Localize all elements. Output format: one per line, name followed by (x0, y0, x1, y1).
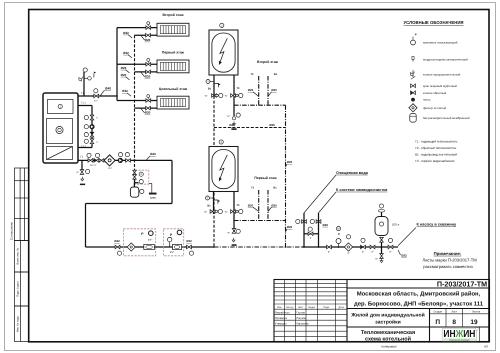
svg-text:Лист: Лист (451, 311, 457, 314)
svg-text:Ø20: Ø20 (145, 75, 151, 79)
svg-text:Второй этаж: Второй этаж (162, 13, 184, 17)
svg-text:Ø20: Ø20 (271, 88, 277, 92)
svg-text:Разработал: Разработал (275, 311, 290, 314)
svg-text:1": 1" (96, 141, 98, 144)
svg-text:Очищенная вода: Очищенная вода (336, 171, 369, 175)
svg-text:Инженерные инновации: Инженерные инновации (449, 338, 469, 341)
svg-text:П: П (435, 319, 440, 326)
svg-text:Цокольный этаж: Цокольный этаж (159, 87, 188, 91)
svg-text:Слив: Слив (150, 197, 157, 200)
svg-text:Инв. № подл.: Инв. № подл. (16, 315, 19, 332)
svg-text:1": 1" (328, 250, 330, 253)
svg-text:Копировал: Копировал (381, 344, 396, 348)
svg-text:1": 1" (96, 117, 98, 120)
svg-text:Дата: Дата (339, 306, 345, 309)
svg-text:В1 - водопровод хоз-питьевой: В1 - водопровод хоз-питьевой (415, 153, 457, 157)
svg-text:Ø20: Ø20 (248, 88, 254, 92)
svg-text:Ø20: Ø20 (121, 73, 127, 77)
svg-text:Листы марки П-203/2017-ТМ: Листы марки П-203/2017-ТМ (422, 257, 477, 262)
svg-text:клапан предохранительный: клапан предохранительный (423, 73, 461, 77)
svg-text:Рягузов: Рягузов (296, 317, 306, 320)
svg-text:1¼": 1¼" (94, 99, 98, 102)
svg-text:Т2 - обратный теплоноситель: Т2 - обратный теплоноситель (415, 146, 457, 150)
svg-text:Ø20: Ø20 (287, 225, 293, 229)
svg-text:Ø20: Ø20 (145, 38, 151, 42)
svg-text:Подп.: Подп. (323, 306, 330, 309)
svg-text:Ø32: Ø32 (122, 89, 128, 93)
svg-text:Кол.уч: Кол.уч (286, 306, 294, 309)
svg-text:Изм: Изм (277, 306, 282, 309)
svg-text:½": ½" (227, 115, 230, 118)
svg-text:рассматривать совместно: рассматривать совместно (423, 264, 473, 269)
svg-text:кран шаровый муфтовый: кран шаровый муфтовый (423, 84, 457, 88)
svg-text:100 л.: 100 л. (392, 223, 400, 227)
svg-text:фильтр сетчатый: фильтр сетчатый (423, 106, 446, 110)
svg-text:Ø32: Ø32 (114, 239, 120, 243)
svg-text:Московская область, Дмитровски: Московская область, Дмитровский район, (357, 291, 481, 298)
svg-text:¾": ¾" (225, 211, 228, 214)
svg-text:№док: №док (309, 306, 316, 309)
svg-text:бак расширительный мембранный: бак расширительный мембранный (423, 116, 470, 120)
svg-text:Ø32: Ø32 (186, 239, 192, 243)
svg-text:P: P (338, 232, 340, 236)
svg-text:К системе химводоочистки: К системе химводоочистки (336, 188, 388, 192)
svg-text:Взам. инв. №: Взам. инв. № (16, 248, 19, 265)
svg-text:19: 19 (470, 319, 478, 326)
svg-text:Ø25: Ø25 (269, 123, 275, 127)
svg-text:УСЛОВНЫЕ ОБОЗНАЧЕНИЯ: УСЛОВНЫЕ ОБОЗНАЧЕНИЯ (403, 20, 463, 25)
svg-text:П-203/2017-ТМ: П-203/2017-ТМ (437, 279, 487, 288)
svg-text:Т1.1: Т1.1 (81, 101, 86, 104)
svg-text:схема котельной: схема котельной (365, 335, 411, 342)
svg-text:Утвердил: Утвердил (275, 322, 287, 325)
svg-text:воздухоотводчик автоматический: воздухоотводчик автоматический (423, 58, 468, 62)
svg-text:Стадия: Стадия (433, 311, 442, 314)
svg-text:1": 1" (389, 250, 391, 253)
svg-text:1¼"-1": 1¼"-1" (90, 164, 97, 167)
svg-text:Глухов: Глухов (296, 311, 305, 314)
svg-text:Первый этаж: Первый этаж (162, 51, 185, 55)
svg-text:Лист: Лист (298, 306, 304, 309)
svg-text:Проверил: Проверил (275, 317, 288, 320)
svg-text:М: М (337, 228, 339, 231)
svg-text:¾": ¾" (225, 95, 228, 98)
svg-text:застройки: застройки (375, 320, 401, 326)
svg-text:1": 1" (347, 252, 349, 255)
svg-text:Тепломеханическая: Тепломеханическая (361, 330, 415, 336)
svg-text:Листов: Листов (472, 311, 481, 314)
svg-text:клапан обратный: клапан обратный (423, 91, 447, 95)
svg-text:½": ½" (227, 232, 230, 235)
svg-text:8: 8 (452, 319, 456, 326)
svg-text:Ø20: Ø20 (323, 223, 329, 227)
svg-text:насос: насос (423, 98, 431, 102)
svg-text:½": ½" (76, 171, 79, 174)
svg-text:1½": 1½" (170, 251, 174, 254)
svg-text:1": 1" (362, 250, 364, 253)
svg-text:дер. Борносово, ДНП «Белояр»,: дер. Борносово, ДНП «Белояр», участок 11… (354, 301, 484, 308)
svg-text:А3: А3 (484, 344, 488, 348)
svg-text:Ø25: Ø25 (287, 160, 293, 164)
svg-text:1½": 1½" (148, 239, 152, 242)
svg-text:Подп. и дата: Подп. и дата (16, 281, 19, 297)
svg-text:Второй этаж: Второй этаж (257, 60, 279, 64)
svg-text:Ø20: Ø20 (248, 203, 254, 207)
svg-text:½": ½" (375, 258, 378, 261)
svg-text:P: P (415, 33, 417, 37)
svg-text:Т1 - подающий теплоноситель: Т1 - подающий теплоноситель (415, 139, 458, 143)
svg-text:Ø40: Ø40 (105, 86, 111, 90)
svg-text:¾": ¾" (204, 211, 207, 214)
svg-text:Первый этаж: Первый этаж (254, 176, 277, 180)
svg-text:Ø20: Ø20 (145, 111, 151, 115)
svg-text:Т3 - горячее водоснабжение: Т3 - горячее водоснабжение (415, 159, 455, 163)
svg-text:1¼": 1¼" (108, 167, 112, 170)
svg-text:Примечание:: Примечание: (434, 251, 462, 256)
svg-text:Ларионов: Ларионов (296, 322, 309, 325)
svg-text:Согласовано: Согласовано (9, 222, 13, 240)
svg-text:Ø32: Ø32 (123, 51, 129, 55)
svg-text:¾": ¾" (205, 95, 208, 98)
svg-text:Ø20: Ø20 (271, 203, 277, 207)
svg-text:К насосу в скважину: К насосу в скважину (417, 222, 457, 227)
svg-text:Жилой дом индивидуальной: Жилой дом индивидуальной (350, 313, 424, 319)
svg-text:1": 1" (371, 250, 373, 253)
svg-text:Ø25: Ø25 (121, 66, 127, 70)
svg-text:манометр показывающий: манометр показывающий (423, 41, 458, 45)
svg-text:Ø32: Ø32 (123, 31, 129, 35)
svg-text:Ø32: Ø32 (401, 254, 407, 258)
svg-text:Ø40: Ø40 (150, 152, 156, 156)
